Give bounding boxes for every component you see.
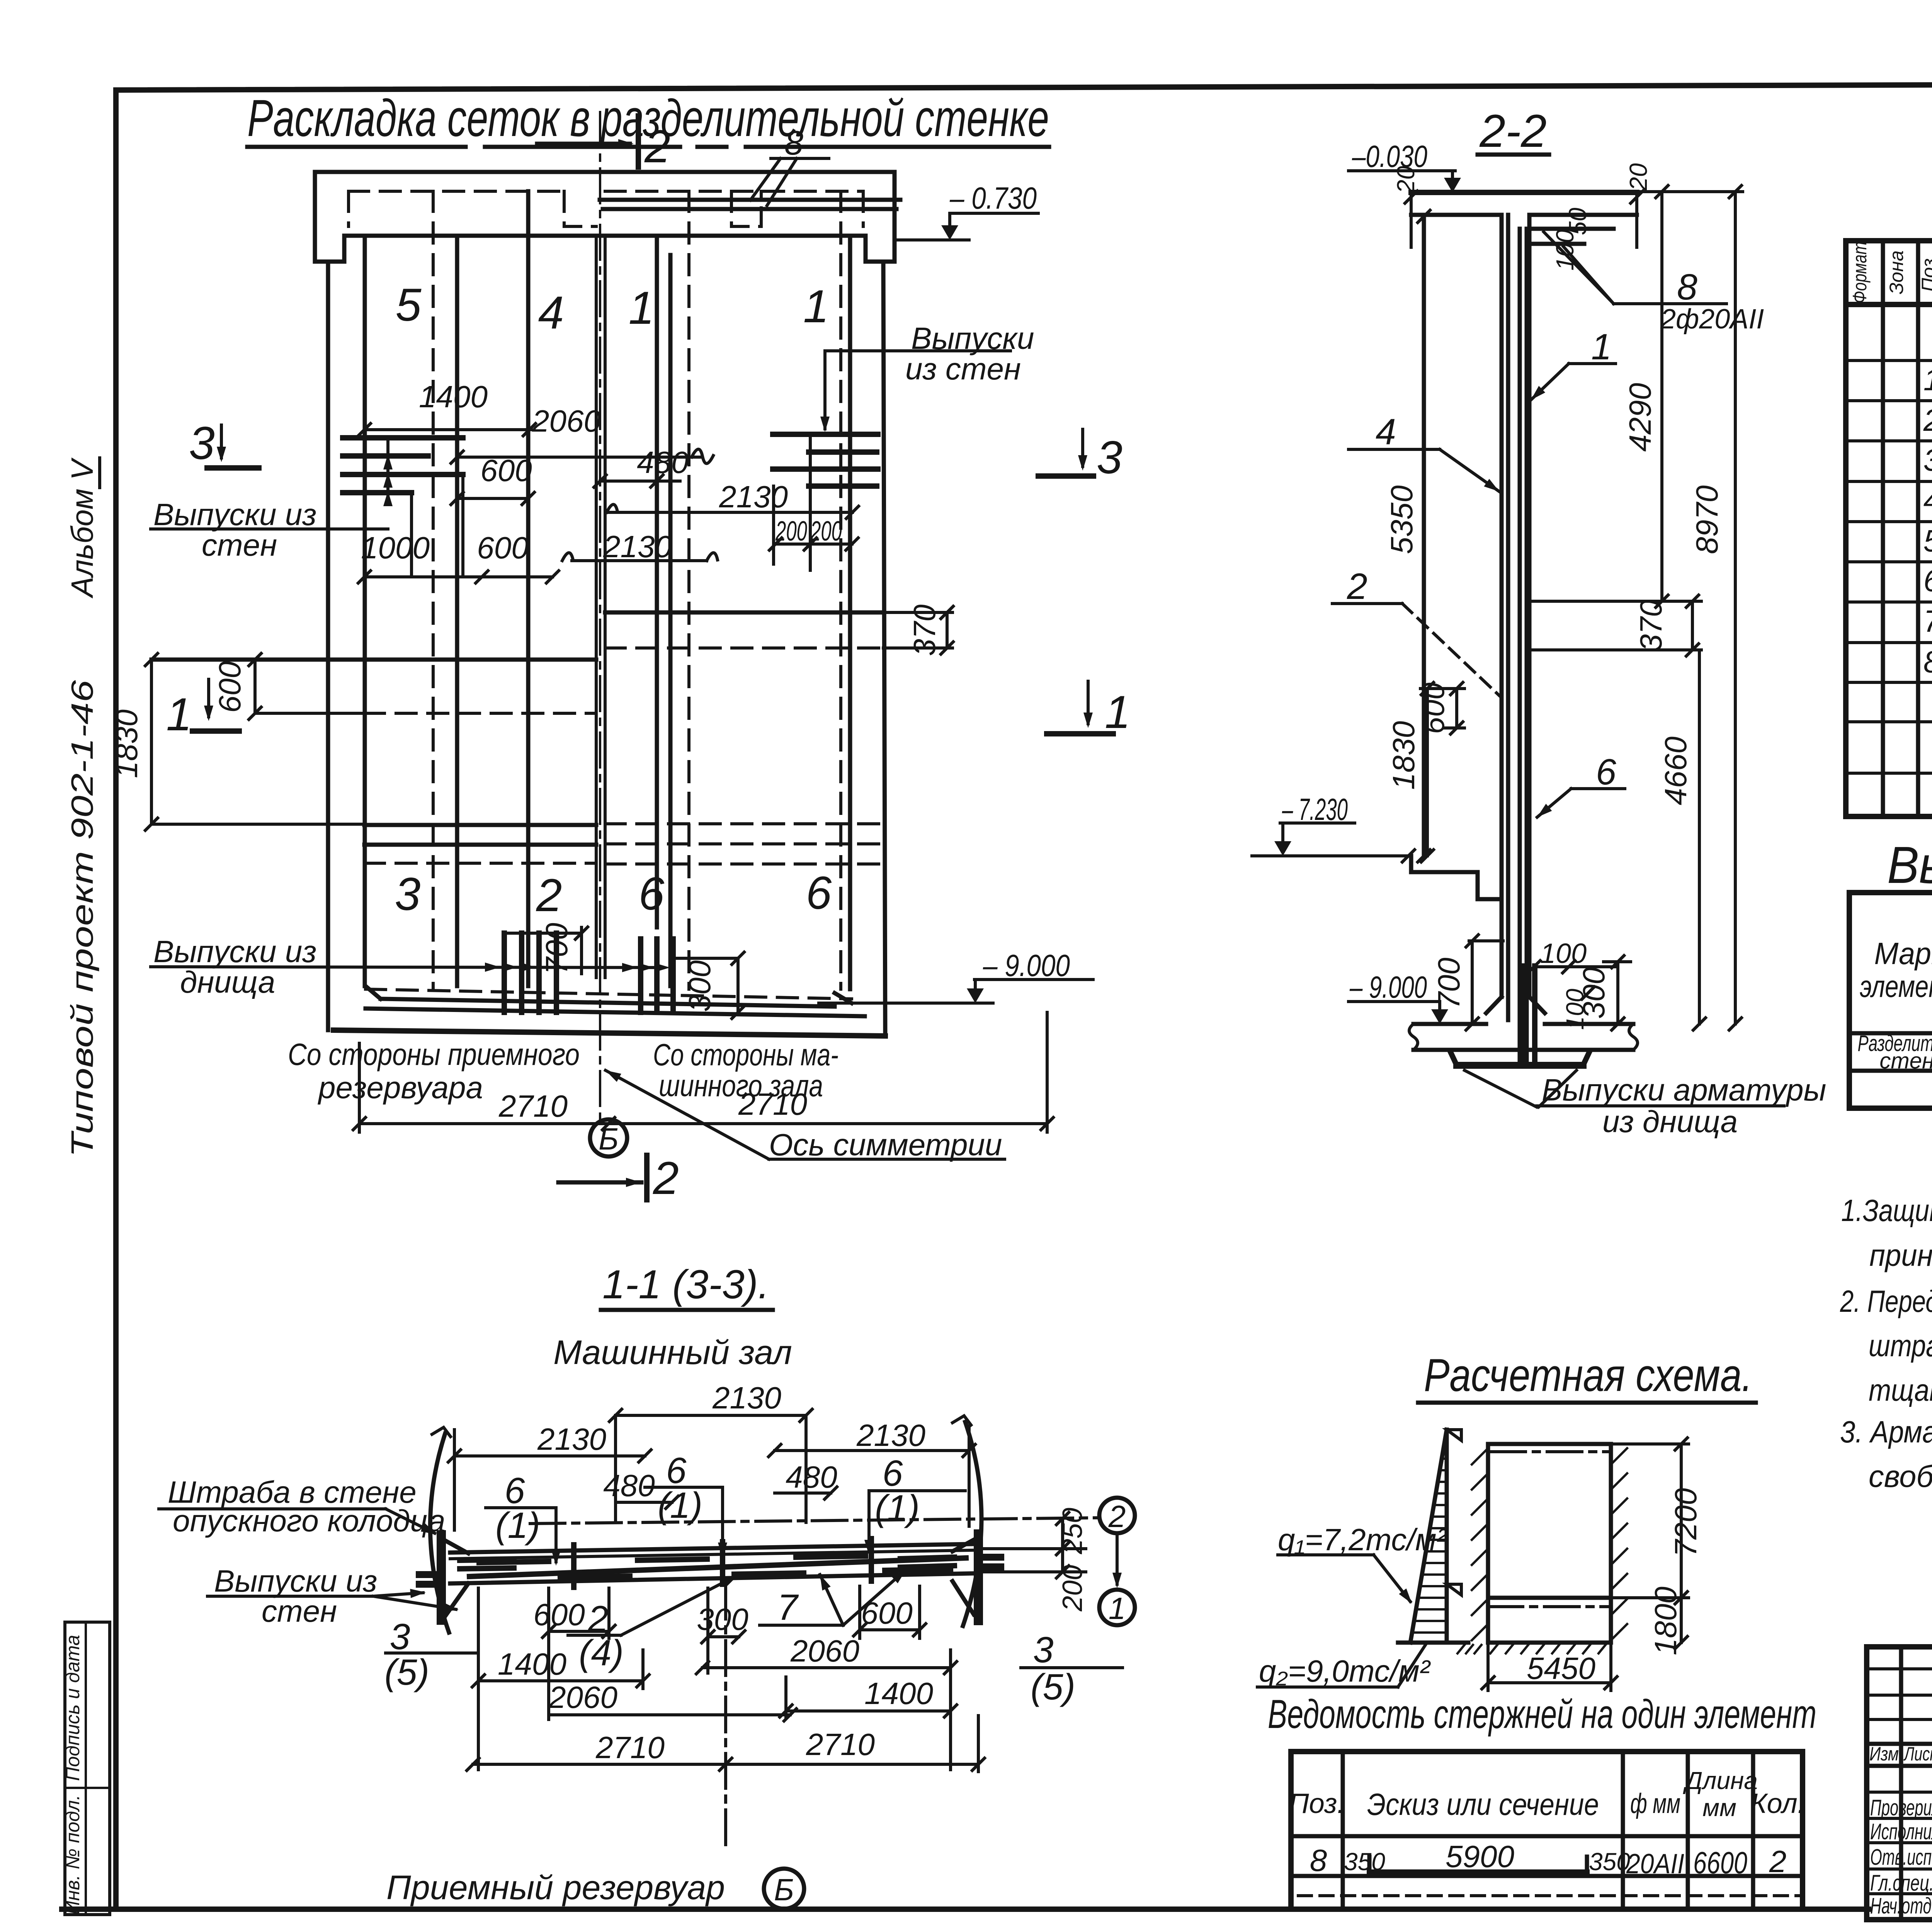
svg-text:2: 2 <box>1347 566 1367 607</box>
svg-text:q₁=7,2тс/м²: q₁=7,2тс/м² <box>1278 1522 1447 1557</box>
svg-text:q₂=9,0тс/м²: q₂=9,0тс/м² <box>1259 1654 1431 1688</box>
svg-text:1: 1 <box>629 282 655 334</box>
svg-text:4: 4 <box>1923 483 1932 517</box>
svg-text:Зона: Зона <box>1886 250 1907 294</box>
svg-text:1-1 (3-3).: 1-1 (3-3). <box>602 1262 769 1307</box>
svg-text:5450: 5450 <box>1527 1651 1595 1685</box>
dim 8970 <box>1734 192 1737 1024</box>
svg-text:штрабы в стене опускных кол: штрабы в стене опускных колодцев необход… <box>1869 1328 1932 1363</box>
svg-text:600: 600 <box>477 531 528 565</box>
dim 1830 section <box>1426 689 1429 856</box>
walls verticals <box>326 262 330 1030</box>
svg-text:20: 20 <box>1392 166 1420 194</box>
svg-text:Расчетная схема.: Расчетная схема. <box>1424 1349 1752 1401</box>
svg-text:тщательно зачистить с промыв: тщательно зачистить с промывкой водой. <box>1869 1373 1932 1407</box>
svg-text:480: 480 <box>603 1468 655 1503</box>
left cap (штраба) <box>437 1530 446 1625</box>
svg-text:ф мм: ф мм <box>1630 1788 1680 1819</box>
svg-text:2-2: 2-2 <box>1479 105 1546 157</box>
svg-text:Выпуски арматуры: Выпуски арматуры <box>1542 1073 1826 1107</box>
svg-text:350: 350 <box>1589 1848 1630 1876</box>
svg-text:3. Арматурные сетки поз.2,3,: 3. Арматурные сетки поз.2,3,6 устанавлив… <box>1840 1415 1932 1449</box>
svg-text:– 0.730: – 0.730 <box>949 181 1037 215</box>
svg-text:Выпуски из: Выпуски из <box>153 497 316 532</box>
svg-text:370: 370 <box>907 604 942 656</box>
svg-text:2060: 2060 <box>790 1634 859 1668</box>
interior vertical mesh lines <box>455 238 459 986</box>
dim 4660 <box>1698 650 1701 1024</box>
svg-text:5: 5 <box>396 279 422 331</box>
svg-text:(1): (1) <box>658 1485 702 1526</box>
main strip <box>450 1544 972 1553</box>
svg-text:1.Защитный слой бетона для: 1.Защитный слой бетона для рабочей армат… <box>1841 1193 1932 1228</box>
svg-text:250: 250 <box>1057 1508 1088 1554</box>
svg-text:(1): (1) <box>875 1488 920 1529</box>
svg-text:3: 3 <box>1033 1629 1054 1670</box>
svg-text:2130: 2130 <box>603 529 672 564</box>
staircase step <box>1411 856 1502 899</box>
svg-text:Со стороны приемного: Со стороны приемного <box>288 1037 580 1071</box>
svg-text:1830: 1830 <box>1386 721 1421 790</box>
svg-text:1000: 1000 <box>361 531 430 565</box>
svg-text:6: 6 <box>1596 752 1616 793</box>
svg-text:Формат: Формат <box>1849 241 1871 303</box>
dim 4290 <box>1660 192 1663 601</box>
svg-text:2: 2 <box>1769 1844 1787 1879</box>
svg-text:Выпуски из: Выпуски из <box>153 934 316 969</box>
svg-text:3: 3 <box>395 868 421 920</box>
svg-text:1: 1 <box>1105 686 1131 738</box>
svg-text:1: 1 <box>1591 327 1612 367</box>
svg-text:5: 5 <box>1923 524 1932 558</box>
svg-text:5900: 5900 <box>1446 1839 1514 1874</box>
stirrup ticks <box>571 1545 577 1587</box>
svg-text:2060: 2060 <box>548 1680 617 1714</box>
svg-text:принят 30мм.: принят 30мм. <box>1869 1238 1932 1272</box>
svg-text:20АII: 20АII <box>1626 1849 1684 1879</box>
section mark 2 bottom + circle Б <box>590 1119 627 1156</box>
foundation slab <box>1413 1022 1486 1026</box>
svg-text:2: 2 <box>536 869 562 921</box>
svg-text:Поз.: Поз. <box>1918 253 1932 292</box>
dim 600 section <box>1420 687 1464 690</box>
svg-text:Исполнил: Исполнил <box>1870 1819 1932 1844</box>
svg-text:20: 20 <box>1624 163 1652 191</box>
svg-text:600: 600 <box>480 453 532 488</box>
plan bottom <box>366 989 852 999</box>
svg-text:мм: мм <box>1702 1794 1736 1821</box>
svg-text:600: 600 <box>861 1596 912 1630</box>
svg-text:– 7.230: – 7.230 <box>1282 792 1348 827</box>
svg-text:2: 2 <box>653 1152 679 1204</box>
svg-text:2ф20АII: 2ф20АII <box>1660 304 1764 335</box>
axis dash-dot <box>599 112 601 1121</box>
svg-text:600: 600 <box>213 661 247 713</box>
svg-text:Альбом V: Альбом V <box>65 457 99 598</box>
svg-text:Ось симметрии: Ось симметрии <box>769 1128 1002 1162</box>
dim 370 right <box>605 611 883 615</box>
wall verticals <box>1422 215 1426 856</box>
dims 250/200 right <box>981 1547 1086 1550</box>
svg-text:2: 2 <box>1108 1499 1126 1534</box>
svg-text:4: 4 <box>1376 412 1396 452</box>
svg-text:2060: 2060 <box>532 404 601 438</box>
svg-text:1400: 1400 <box>498 1647 566 1681</box>
svg-text:5350: 5350 <box>1384 485 1419 554</box>
bottom-left margin strip <box>65 1622 110 1915</box>
svg-text:Подпись и дата: Подпись и дата <box>62 1635 83 1781</box>
svg-text:2. Перед бетонированием разд: 2. Перед бетонированием разделительной с… <box>1840 1284 1932 1318</box>
svg-text:2: 2 <box>1923 403 1932 437</box>
top slab <box>1411 190 1637 195</box>
svg-text:200: 200 <box>1057 1565 1088 1612</box>
svg-text:1: 1 <box>1923 362 1932 397</box>
svg-text:днища: днища <box>180 965 275 999</box>
load triangle <box>1445 1430 1449 1643</box>
svg-text:(5): (5) <box>1031 1667 1075 1708</box>
svg-text:350: 350 <box>1344 1848 1385 1876</box>
svg-text:Инв. № подл.: Инв. № подл. <box>62 1795 83 1915</box>
svg-text:Лист: Лист <box>1903 1743 1932 1765</box>
wall scheme <box>1486 1444 1490 1643</box>
svg-text:3: 3 <box>1923 443 1932 477</box>
svg-text:свободными концами вверх.: свободными концами вверх. <box>1869 1459 1932 1493</box>
svg-text:600: 600 <box>1416 682 1451 734</box>
svg-text:Машинный зал: Машинный зал <box>553 1333 792 1371</box>
svg-text:Проверил: Проверил <box>1870 1795 1932 1820</box>
svg-text:Со стороны ма-: Со стороны ма- <box>653 1037 838 1072</box>
axis dash-dot horizontal to circles <box>530 1518 1099 1524</box>
svg-text:6: 6 <box>806 867 832 919</box>
svg-text:(1): (1) <box>495 1505 540 1546</box>
svg-text:Б: Б <box>599 1122 619 1156</box>
break arcs <box>430 1434 449 1633</box>
svg-text:Длина: Длина <box>1683 1767 1758 1794</box>
2ф20 bars in slab <box>1529 227 1614 231</box>
svg-text:Гл.спец.: Гл.спец. <box>1870 1871 1932 1896</box>
svg-text:элемента: элемента <box>1860 969 1932 1003</box>
svg-text:100: 100 <box>1540 938 1587 969</box>
svg-text:370: 370 <box>1634 600 1668 651</box>
svg-text:Б: Б <box>774 1872 794 1907</box>
svg-text:(5): (5) <box>384 1652 429 1693</box>
svg-text:8: 8 <box>1310 1843 1327 1878</box>
svg-text:Выборка стали на один элем: Выборка стали на один элемент, кг <box>1887 836 1932 894</box>
svg-text:1400: 1400 <box>419 379 488 414</box>
svg-text:2710: 2710 <box>595 1730 665 1765</box>
svg-text:8: 8 <box>784 124 803 162</box>
svg-text:Нач.отд.: Нач.отд. <box>1870 1893 1932 1918</box>
svg-text:(4): (4) <box>579 1633 624 1673</box>
dim 300 <box>1616 962 1619 1024</box>
svg-text:300: 300 <box>697 1602 748 1636</box>
svg-text:200: 200 <box>775 516 807 547</box>
bars group C (bottom, выпуски из днища) <box>502 933 507 1012</box>
svg-text:1800: 1800 <box>1648 1587 1683 1655</box>
svg-text:Типовой проект 902-1-46: Типовой проект 902-1-46 <box>65 680 99 1157</box>
center dividing wall <box>595 236 598 978</box>
svg-text:Кол.: Кол. <box>1750 1788 1805 1819</box>
svg-text:2130: 2130 <box>856 1418 925 1452</box>
svg-text:1: 1 <box>166 689 192 740</box>
svg-text:3: 3 <box>390 1616 410 1657</box>
svg-text:Ведомость стержней на один эл: Ведомость стержней на один элемент <box>1268 1692 1816 1737</box>
svg-text:6600: 6600 <box>1693 1845 1747 1880</box>
right cap <box>974 1529 983 1625</box>
svg-text:стенка: стенка <box>1879 1048 1932 1073</box>
svg-text:из днища: из днища <box>1602 1104 1738 1139</box>
anchor bars below <box>1521 966 1527 1065</box>
bars group D <box>638 939 643 1012</box>
svg-text:2: 2 <box>644 121 670 172</box>
svg-text:1: 1 <box>803 281 829 332</box>
bars group B (right top, выпуски из стен) <box>773 432 878 437</box>
svg-text:Эскиз или сечение: Эскиз или сечение <box>1367 1787 1599 1821</box>
svg-text:480: 480 <box>786 1460 837 1494</box>
dashed line under cap with notches <box>349 190 564 193</box>
svg-text:Приемный резервуар: Приемный резервуар <box>386 1868 725 1906</box>
lower horizontal mesh lines <box>364 823 596 827</box>
bars group A (left, выпуски из стен) <box>343 435 463 440</box>
pos.8 bars in cap <box>600 198 900 202</box>
svg-text:3: 3 <box>189 417 215 469</box>
svg-text:– 9.000: – 9.000 <box>1349 970 1427 1004</box>
svg-text:1400: 1400 <box>864 1676 933 1711</box>
svg-text:стен: стен <box>202 528 277 562</box>
svg-text:7: 7 <box>1923 604 1932 638</box>
svg-text:4290: 4290 <box>1623 383 1657 452</box>
svg-text:1: 1 <box>1109 1591 1126 1626</box>
mesh dashes inside strip <box>479 1561 549 1563</box>
svg-text:стен: стен <box>262 1594 337 1628</box>
svg-text:7200: 7200 <box>1668 1488 1703 1557</box>
wall base chamfers <box>1486 997 1502 1013</box>
svg-text:6: 6 <box>639 868 665 920</box>
dim 370 section <box>1529 600 1701 603</box>
svg-text:200: 200 <box>810 516 842 547</box>
svg-text:Выпуски из: Выпуски из <box>214 1564 377 1598</box>
left middle lines + dims 1830/600 <box>151 658 596 662</box>
svg-text:8: 8 <box>1677 267 1697 308</box>
svg-text:1830: 1830 <box>109 709 144 778</box>
svg-text:4: 4 <box>538 287 564 338</box>
svg-text:7: 7 <box>777 1587 799 1628</box>
section mark 2 (top) <box>537 142 630 146</box>
svg-text:4660: 4660 <box>1658 736 1693 805</box>
svg-text:2130: 2130 <box>537 1422 606 1456</box>
svg-text:– 9.000: – 9.000 <box>983 948 1070 983</box>
svg-text:2130: 2130 <box>719 480 788 514</box>
svg-text:Марка: Марка <box>1874 936 1932 971</box>
svg-text:2710: 2710 <box>806 1727 875 1762</box>
svg-text:6: 6 <box>1923 563 1932 598</box>
plan cap (top slab) <box>315 172 895 262</box>
label Выпуски арматуры из днища <box>1464 1070 1537 1107</box>
svg-text:Отв.исп.: Отв.исп. <box>1870 1845 1932 1870</box>
svg-text:2130: 2130 <box>712 1381 781 1415</box>
svg-text:8970: 8970 <box>1690 485 1724 554</box>
svg-text:из стен: из стен <box>905 352 1021 386</box>
dims 7200 / 1800 / 5450 <box>1680 1444 1683 1643</box>
svg-text:2710: 2710 <box>498 1089 568 1123</box>
svg-text:Изм: Изм <box>1869 1743 1899 1765</box>
svg-text:3: 3 <box>1097 432 1122 483</box>
svg-text:2710: 2710 <box>738 1087 807 1121</box>
svg-text:резервуара: резервуара <box>318 1070 483 1105</box>
svg-text:600: 600 <box>533 1597 585 1632</box>
svg-text:Поз.: Поз. <box>1289 1788 1345 1819</box>
dim 700 section <box>1469 939 1503 942</box>
svg-text:300: 300 <box>682 960 717 1012</box>
svg-text:8: 8 <box>1923 645 1932 679</box>
